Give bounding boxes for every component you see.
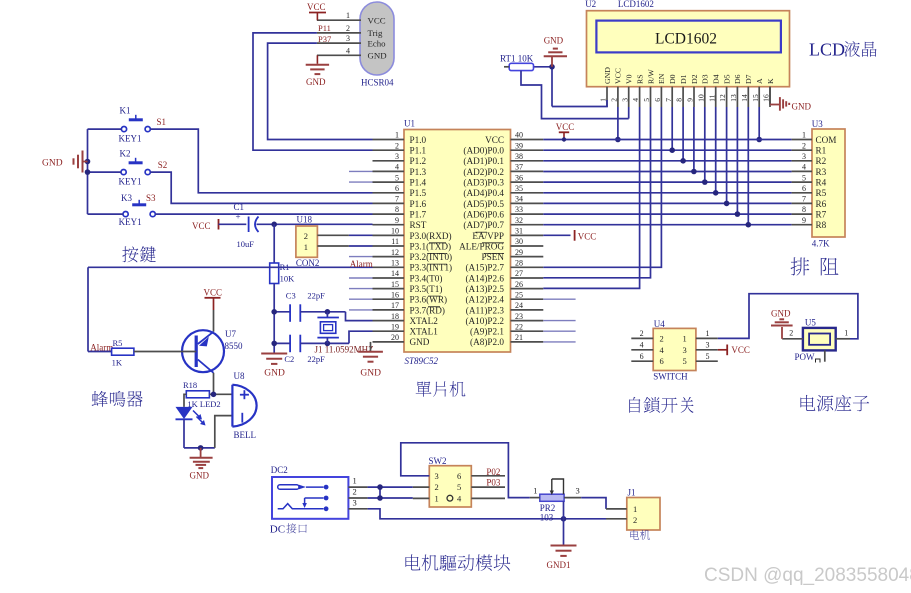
svg-text:8: 8 <box>675 98 684 102</box>
svg-text:D3: D3 <box>701 74 710 84</box>
svg-text:P1.7: P1.7 <box>410 210 427 220</box>
svg-text:S1: S1 <box>157 117 167 127</box>
svg-text:Trig: Trig <box>368 28 383 38</box>
svg-text:5: 5 <box>802 173 806 182</box>
svg-text:RS: RS <box>635 74 644 84</box>
svg-text:S3: S3 <box>146 193 156 203</box>
svg-text:HCSR04: HCSR04 <box>361 78 394 88</box>
svg-text:U18: U18 <box>297 214 313 224</box>
svg-text:39: 39 <box>515 141 523 150</box>
svg-text:P02: P02 <box>486 467 500 477</box>
svg-text:P3.4(T0): P3.4(T0) <box>410 273 443 283</box>
svg-text:3: 3 <box>435 471 439 481</box>
svg-text:22pF: 22pF <box>307 354 325 364</box>
svg-text:9: 9 <box>686 98 695 102</box>
svg-text:6: 6 <box>653 98 662 102</box>
svg-text:KEY1: KEY1 <box>119 217 142 227</box>
svg-text:20: 20 <box>391 333 399 342</box>
svg-text:3: 3 <box>620 98 629 102</box>
svg-text:R5: R5 <box>113 338 123 348</box>
svg-text:K1: K1 <box>120 106 131 116</box>
svg-text:S2: S2 <box>158 160 168 170</box>
svg-text:1K LED2: 1K LED2 <box>187 399 220 409</box>
svg-text:Alarm: Alarm <box>350 259 373 269</box>
svg-text:CSDN @qq_2083558048: CSDN @qq_2083558048 <box>704 565 911 586</box>
svg-text:(AD4)P0.4: (AD4)P0.4 <box>463 188 504 198</box>
svg-text:(A9)P2.1: (A9)P2.1 <box>470 327 504 337</box>
svg-text:16: 16 <box>391 290 399 299</box>
svg-text:P1.5: P1.5 <box>410 188 427 198</box>
svg-text:12: 12 <box>718 94 727 102</box>
svg-text:6: 6 <box>640 352 644 361</box>
svg-text:5: 5 <box>706 352 710 361</box>
svg-text:8: 8 <box>802 205 806 214</box>
svg-text:36: 36 <box>515 173 523 182</box>
svg-text:D0: D0 <box>668 74 677 84</box>
svg-text:14: 14 <box>391 269 399 278</box>
svg-text:2: 2 <box>435 482 439 492</box>
svg-text:C3: C3 <box>286 291 296 301</box>
svg-text:R1: R1 <box>816 146 827 156</box>
svg-text:GND1: GND1 <box>547 560 571 570</box>
svg-text:(A10)P2.2: (A10)P2.2 <box>465 316 504 326</box>
svg-text:1: 1 <box>706 329 710 338</box>
svg-text:1: 1 <box>346 11 350 20</box>
svg-text:3: 3 <box>395 152 399 161</box>
svg-text:(AD5)P0.5: (AD5)P0.5 <box>463 199 504 209</box>
svg-text:28: 28 <box>515 259 523 268</box>
svg-text:2: 2 <box>660 333 664 343</box>
svg-text:(AD6)P0.6: (AD6)P0.6 <box>463 210 504 220</box>
svg-text:9: 9 <box>395 216 399 225</box>
svg-text:18: 18 <box>391 312 399 321</box>
svg-text:J1: J1 <box>628 488 636 498</box>
svg-text:CON2: CON2 <box>296 258 320 268</box>
svg-text:1: 1 <box>395 131 399 140</box>
svg-text:1: 1 <box>435 493 439 503</box>
svg-text:R18: R18 <box>183 380 197 390</box>
svg-text:U7: U7 <box>225 329 236 339</box>
svg-text:POW: POW <box>795 352 816 362</box>
svg-text:P11: P11 <box>318 23 331 33</box>
svg-text:U8: U8 <box>234 371 245 381</box>
svg-text:10: 10 <box>391 227 399 236</box>
svg-text:GND: GND <box>190 471 210 481</box>
svg-text:XTAL1: XTAL1 <box>410 327 439 337</box>
svg-text:(AD7)P0.7: (AD7)P0.7 <box>463 220 504 230</box>
svg-text:VCC: VCC <box>614 68 623 84</box>
svg-text:BELL: BELL <box>234 430 257 440</box>
svg-text:R8: R8 <box>816 220 827 230</box>
svg-text:19: 19 <box>391 322 399 331</box>
svg-text:P37: P37 <box>318 34 331 44</box>
svg-text:4: 4 <box>640 341 644 350</box>
svg-text:DC2: DC2 <box>271 465 288 475</box>
svg-text:3: 3 <box>353 498 357 508</box>
svg-text:C1: C1 <box>234 202 245 212</box>
svg-text:(A11)P2.3: (A11)P2.3 <box>466 305 505 315</box>
svg-text:24: 24 <box>515 301 523 310</box>
svg-text:(AD3)P0.3: (AD3)P0.3 <box>463 178 504 188</box>
svg-text:VCC: VCC <box>204 288 223 298</box>
svg-text:22pF: 22pF <box>307 291 325 301</box>
svg-text:1: 1 <box>304 242 308 252</box>
svg-text:GND: GND <box>360 369 381 379</box>
svg-text:15: 15 <box>391 280 399 289</box>
svg-text:6: 6 <box>395 184 399 193</box>
svg-text:9: 9 <box>802 216 806 225</box>
svg-text:Echo: Echo <box>368 38 387 48</box>
svg-text:V0: V0 <box>625 74 634 84</box>
svg-text:13: 13 <box>729 94 738 102</box>
svg-text:K3: K3 <box>121 193 132 203</box>
svg-text:D6: D6 <box>733 74 742 84</box>
svg-text:VCC: VCC <box>578 232 597 242</box>
svg-text:GND: GND <box>368 51 387 61</box>
svg-text:1: 1 <box>633 504 637 514</box>
svg-text:5: 5 <box>683 356 687 366</box>
svg-text:2: 2 <box>640 329 644 338</box>
svg-text:2: 2 <box>633 515 637 525</box>
svg-text:15: 15 <box>751 94 760 102</box>
svg-text:1: 1 <box>802 131 806 140</box>
svg-text:2: 2 <box>610 98 619 102</box>
svg-text:GND: GND <box>792 102 812 112</box>
svg-text:4: 4 <box>631 98 640 102</box>
svg-text:R7: R7 <box>816 210 827 220</box>
svg-text:2: 2 <box>346 24 350 33</box>
svg-text:R/W: R/W <box>646 69 655 84</box>
svg-text:U4: U4 <box>654 319 665 329</box>
svg-text:31: 31 <box>515 227 523 236</box>
svg-text:40: 40 <box>515 131 523 140</box>
svg-text:GND: GND <box>264 369 285 379</box>
svg-text:P3.0(RXD): P3.0(RXD) <box>410 231 452 241</box>
svg-text:5: 5 <box>642 98 651 102</box>
svg-text:12: 12 <box>391 248 399 257</box>
svg-text:26: 26 <box>515 280 523 289</box>
svg-text:VCC: VCC <box>485 135 504 145</box>
svg-text:GND: GND <box>410 337 430 347</box>
svg-text:D4: D4 <box>712 74 721 84</box>
svg-text:1: 1 <box>844 329 848 338</box>
svg-text:(A8)P2.0: (A8)P2.0 <box>470 337 504 347</box>
svg-text:RT1 10K: RT1 10K <box>500 54 534 64</box>
svg-text:2: 2 <box>304 231 308 241</box>
svg-text:P1.4: P1.4 <box>410 178 427 188</box>
svg-text:LCD1602: LCD1602 <box>655 31 717 48</box>
svg-text:U2: U2 <box>585 0 596 9</box>
svg-text:R4: R4 <box>816 178 827 188</box>
svg-text:29: 29 <box>515 248 523 257</box>
svg-text:P1.2: P1.2 <box>410 156 427 166</box>
svg-text:13: 13 <box>391 259 399 268</box>
svg-text:P1.0: P1.0 <box>410 135 427 145</box>
svg-text:2: 2 <box>802 141 806 150</box>
svg-text:P1.1: P1.1 <box>410 146 427 156</box>
svg-text:6: 6 <box>802 184 806 193</box>
svg-text:COM: COM <box>816 135 837 145</box>
svg-text:VCC: VCC <box>731 345 750 355</box>
svg-text:GND: GND <box>771 309 791 319</box>
svg-text:32: 32 <box>515 216 523 225</box>
svg-text:A: A <box>755 78 764 84</box>
svg-text:VCC: VCC <box>556 122 575 132</box>
svg-text:GND: GND <box>306 77 326 87</box>
svg-text:DC: DC <box>270 524 285 536</box>
svg-text:103: 103 <box>540 513 554 523</box>
svg-text:VCC: VCC <box>368 15 386 25</box>
svg-text:ST89C52: ST89C52 <box>405 356 439 366</box>
svg-text:22: 22 <box>515 322 523 331</box>
svg-text:R3: R3 <box>816 167 827 177</box>
svg-text:37: 37 <box>515 163 523 172</box>
svg-text:11: 11 <box>707 94 716 101</box>
svg-text:(A13)P2.5: (A13)P2.5 <box>465 284 504 294</box>
svg-text:P1.3: P1.3 <box>410 167 427 177</box>
svg-text:27: 27 <box>515 269 523 278</box>
svg-text:XTAL2: XTAL2 <box>410 316 439 326</box>
svg-text:10K: 10K <box>280 274 296 284</box>
svg-text:3: 3 <box>683 345 687 355</box>
svg-text:P1.6: P1.6 <box>410 199 427 209</box>
svg-text:34: 34 <box>515 195 523 204</box>
svg-text:U3: U3 <box>812 119 823 129</box>
svg-text:(AD0)P0.0: (AD0)P0.0 <box>463 146 504 156</box>
svg-text:8550: 8550 <box>225 341 244 351</box>
svg-text:EN: EN <box>657 73 666 84</box>
svg-text:25: 25 <box>515 290 523 299</box>
svg-text:10: 10 <box>696 94 705 102</box>
svg-text:1: 1 <box>353 476 357 486</box>
svg-text:1: 1 <box>683 333 687 343</box>
svg-text:8: 8 <box>395 205 399 214</box>
svg-text:SWITCH: SWITCH <box>653 372 688 382</box>
svg-text:14: 14 <box>740 94 749 102</box>
svg-text:38: 38 <box>515 152 523 161</box>
svg-text:(A15)P2.7: (A15)P2.7 <box>465 263 504 273</box>
svg-text:2: 2 <box>353 487 357 497</box>
svg-text:GND: GND <box>544 36 564 46</box>
svg-text:5: 5 <box>457 482 461 492</box>
svg-text:P03: P03 <box>486 478 501 488</box>
svg-text:21: 21 <box>515 333 523 342</box>
svg-text:23: 23 <box>515 312 523 321</box>
svg-text:R2: R2 <box>816 156 827 166</box>
svg-text:1: 1 <box>533 485 537 495</box>
svg-text:3: 3 <box>346 34 350 43</box>
svg-text:3: 3 <box>802 152 806 161</box>
svg-text:2: 2 <box>395 141 399 150</box>
svg-text:(A12)P2.4: (A12)P2.4 <box>465 295 504 305</box>
svg-text:(AD2)P0.2: (AD2)P0.2 <box>463 167 504 177</box>
svg-text:U5: U5 <box>805 318 816 328</box>
svg-text:4: 4 <box>395 163 399 172</box>
svg-text:LCD1602: LCD1602 <box>618 0 654 9</box>
svg-text:3: 3 <box>576 485 580 495</box>
svg-text:4.7K: 4.7K <box>812 239 830 249</box>
svg-text:D1: D1 <box>679 74 688 84</box>
svg-text:GND: GND <box>603 67 612 84</box>
svg-text:KEY1: KEY1 <box>119 177 142 187</box>
svg-text:VCC: VCC <box>307 2 326 12</box>
svg-text:U1: U1 <box>404 119 415 129</box>
svg-text:LCD: LCD <box>809 40 845 60</box>
svg-text:3: 3 <box>706 341 710 350</box>
svg-text:1K: 1K <box>112 357 123 367</box>
svg-text:SW2: SW2 <box>429 456 447 466</box>
svg-text:KEY1: KEY1 <box>119 134 142 144</box>
svg-text:R6: R6 <box>816 199 827 209</box>
svg-text:5: 5 <box>395 173 399 182</box>
svg-text:RST: RST <box>410 220 427 230</box>
svg-text:(AD1)P0.1: (AD1)P0.1 <box>463 156 504 166</box>
svg-text:GND: GND <box>42 159 63 169</box>
svg-text:7: 7 <box>395 195 399 204</box>
svg-text:11: 11 <box>391 237 399 246</box>
svg-text:6: 6 <box>457 471 461 481</box>
svg-text:R5: R5 <box>816 188 827 198</box>
svg-text:7: 7 <box>802 195 806 204</box>
svg-text:30: 30 <box>515 237 523 246</box>
svg-text:D7: D7 <box>744 74 753 84</box>
svg-text:(A14)P2.6: (A14)P2.6 <box>465 273 504 283</box>
svg-text:10uF: 10uF <box>237 239 255 249</box>
svg-text:C2: C2 <box>284 354 294 364</box>
svg-text:2: 2 <box>789 329 793 338</box>
svg-text:7: 7 <box>664 98 673 102</box>
svg-text:33: 33 <box>515 205 523 214</box>
svg-text:PR2: PR2 <box>540 503 556 513</box>
svg-text:P3.5(T1): P3.5(T1) <box>410 284 443 294</box>
svg-text:VCC: VCC <box>192 221 211 231</box>
svg-text:35: 35 <box>515 184 523 193</box>
svg-text:+: + <box>236 212 241 222</box>
svg-text:K: K <box>766 78 775 84</box>
svg-text:K2: K2 <box>120 149 131 159</box>
svg-text:4: 4 <box>802 163 806 172</box>
svg-text:4: 4 <box>346 46 350 55</box>
svg-text:D2: D2 <box>690 74 699 84</box>
svg-text:6: 6 <box>660 356 664 366</box>
svg-text:D5: D5 <box>722 74 731 84</box>
svg-text:17: 17 <box>391 301 399 310</box>
